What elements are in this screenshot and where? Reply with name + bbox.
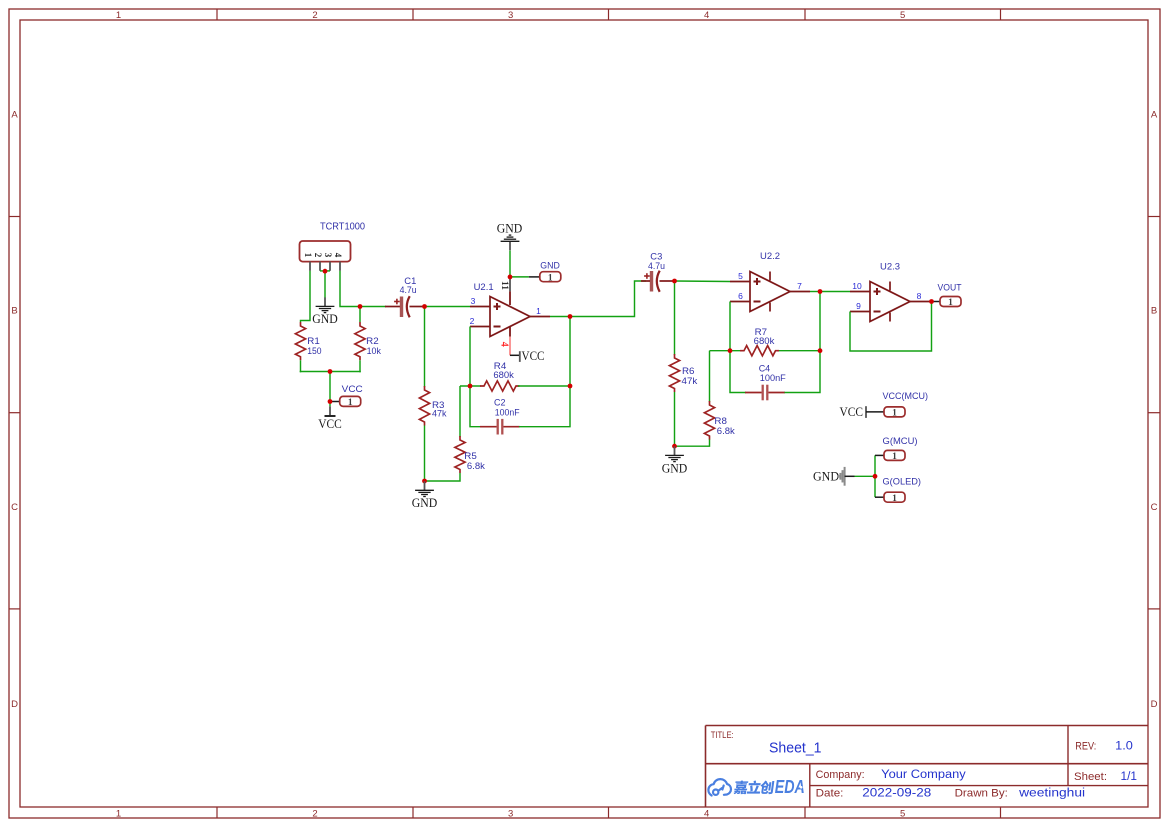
junction pin11 node (508, 275, 513, 280)
svg-text:2: 2 (312, 808, 317, 819)
svg-text:B: B (11, 306, 17, 317)
junction TCRT gnd (323, 269, 328, 274)
junction fb (468, 384, 473, 389)
svg-text:1: 1 (892, 494, 897, 504)
svg-text:C: C (11, 502, 18, 513)
junction R3 gnd (422, 479, 427, 484)
svg-text:VOUT: VOUT (938, 282, 962, 292)
svg-text:6.8k: 6.8k (717, 426, 736, 436)
U2.1 pin3 (470, 306, 490, 308)
C3 right pin (660, 280, 675, 282)
JLC EDA logo (708, 779, 731, 795)
svg-text:GND: GND (813, 470, 839, 484)
U2.2 power bars (769, 272, 771, 281)
wire R4 to out (518, 385, 570, 387)
wire R1-R2 rail (300, 371, 361, 373)
svg-text:A: A (1151, 110, 1158, 121)
svg-text:Date:: Date: (816, 788, 844, 800)
svg-text:GND: GND (312, 312, 338, 326)
power VCC symbol (329, 406, 331, 415)
wire pins2-3 join (320, 270, 330, 272)
wire U2.2 out down (819, 292, 821, 351)
svg-text:4.7u: 4.7u (400, 285, 417, 295)
ground TCRT (324, 297, 326, 306)
capacitor C3 (650, 271, 653, 292)
svg-text:U2.3: U2.3 (880, 261, 900, 271)
power VCC flag U2.1 (510, 354, 520, 356)
U2.3 pin8 (910, 301, 930, 303)
resistor R3 (419, 386, 429, 426)
svg-text:GND: GND (412, 496, 438, 510)
U2.3 power bars (889, 282, 891, 291)
U2.1 pin11 (509, 277, 511, 292)
resistor R2 wire top (359, 307, 361, 323)
svg-text:G(MCU): G(MCU) (883, 436, 918, 447)
U2.2 pin7 (790, 291, 810, 293)
svg-text:Sheet_1: Sheet_1 (769, 740, 822, 756)
svg-text:9: 9 (856, 301, 861, 311)
svg-text:1: 1 (116, 10, 121, 21)
TCRT1000 pins 1-4 (309, 262, 311, 271)
wire out down (569, 317, 571, 387)
svg-text:4: 4 (704, 808, 709, 819)
svg-text:C: C (1151, 502, 1158, 513)
svg-text:D: D (1151, 699, 1158, 710)
svg-text:2: 2 (470, 316, 475, 326)
svg-text:R5: R5 (464, 451, 477, 461)
svg-text:3: 3 (508, 10, 513, 21)
svg-text:5: 5 (900, 10, 905, 21)
wire R8 top (709, 351, 711, 402)
svg-text:4: 4 (704, 10, 709, 21)
svg-text:Drawn By:: Drawn By: (955, 788, 1008, 800)
svg-text:6.8k: 6.8k (467, 461, 486, 471)
svg-text:1: 1 (548, 273, 553, 283)
resistor R6 (669, 354, 679, 392)
svg-text:VCC(MCU): VCC(MCU) (883, 391, 929, 402)
resistor R5 (455, 436, 465, 473)
resistor R8 (704, 401, 714, 440)
wire U2.1 out (550, 316, 570, 318)
svg-text:1: 1 (303, 253, 313, 258)
wire gnd stem (845, 475, 855, 477)
svg-text:47k: 47k (432, 408, 447, 418)
svg-text:8: 8 (917, 291, 922, 301)
wire C2 right (519, 386, 570, 427)
U2.1 pin4 bar (509, 327, 511, 337)
C3 left pin (641, 280, 650, 282)
wire R5 gnd rail (425, 473, 461, 481)
svg-text:VCC: VCC (318, 417, 342, 431)
junction U2.1 out (568, 314, 573, 319)
junction C1 out (422, 304, 427, 309)
C2 left pin (480, 426, 497, 428)
port GND (540, 272, 561, 282)
capacitor C2 (497, 419, 499, 435)
port G(MCU) (884, 450, 905, 460)
wire TCRT gnd (324, 271, 326, 297)
junction R4 out (568, 384, 573, 389)
C4 left pin (745, 392, 762, 394)
wire VOUT stub (932, 301, 941, 303)
svg-text:B: B (1151, 306, 1157, 317)
svg-text:R1: R1 (307, 336, 320, 346)
svg-text:U2.1: U2.1 (474, 282, 494, 292)
svg-text:1: 1 (348, 398, 353, 408)
wire R8 gnd rail (675, 439, 710, 446)
U2.2 pin5 (730, 281, 750, 283)
junction R1R2 (328, 369, 333, 374)
svg-text:Company:: Company: (816, 769, 865, 781)
wire VCC port stub (332, 401, 340, 403)
svg-text:150: 150 (307, 346, 321, 356)
wire R5 top (459, 386, 461, 437)
svg-text:6: 6 (738, 291, 743, 301)
wire fb2 rail (710, 350, 742, 352)
port VCC (340, 396, 361, 406)
wire G(MCU) (874, 455, 876, 476)
op-amp U2.2 (750, 272, 790, 312)
svg-text:7: 7 (797, 281, 802, 291)
svg-text:A: A (11, 110, 18, 121)
wire R1 bottom (300, 360, 302, 372)
svg-text:R2: R2 (366, 336, 379, 346)
wire C3 to pin5 (675, 280, 731, 283)
svg-text:2022-09-28: 2022-09-28 (862, 788, 931, 800)
sensor TCRT1000 body (300, 241, 351, 262)
svg-text:10: 10 (852, 281, 862, 291)
svg-text:5: 5 (738, 271, 743, 281)
svg-text:47k: 47k (682, 376, 698, 386)
C4 right pin (769, 392, 786, 394)
junction R7 out (818, 348, 823, 353)
svg-text:VCC: VCC (522, 349, 545, 363)
svg-text:TCRT1000: TCRT1000 (320, 222, 365, 233)
capacitor C1 (400, 297, 403, 318)
svg-text:4: 4 (333, 253, 343, 258)
wire C1 to R3 (424, 307, 426, 388)
wire C2 left (470, 386, 481, 427)
wire R2 bottom (359, 360, 361, 372)
svg-text:1/1: 1/1 (1121, 771, 1138, 783)
svg-text:680k: 680k (754, 336, 775, 346)
svg-text:1: 1 (536, 306, 541, 316)
svg-text:1: 1 (948, 298, 953, 308)
wire fb rail (460, 385, 481, 387)
svg-text:GND: GND (540, 261, 560, 271)
wire G(OLED) (874, 476, 876, 497)
svg-text:100nF: 100nF (760, 373, 786, 383)
svg-text:4.7u: 4.7u (648, 261, 665, 271)
U2.1 pin4 line (509, 337, 511, 356)
U2.1 pin1 (530, 316, 550, 318)
svg-text:3: 3 (471, 296, 476, 306)
op-amp U2.3 (870, 282, 910, 322)
ground R3 (424, 481, 426, 490)
svg-text:1: 1 (892, 452, 897, 462)
svg-text:1: 1 (892, 409, 897, 419)
wire U2.3 feedback (850, 302, 932, 352)
junction U2.3 out (929, 299, 934, 304)
svg-text:3: 3 (508, 808, 513, 819)
port VOUT (940, 297, 961, 307)
U2.3 pin10 (850, 291, 870, 293)
junction C3 out (672, 279, 677, 284)
junction fb2 (728, 348, 733, 353)
wire R7 to out (779, 350, 820, 352)
svg-text:2: 2 (312, 10, 317, 21)
ground R6 (674, 446, 676, 455)
junction node A (358, 304, 363, 309)
svg-text:10k: 10k (367, 346, 382, 356)
title block grid (706, 725, 1149, 727)
resistor R1 (295, 322, 305, 360)
wire gnd to pin11 (509, 251, 511, 277)
svg-text:3: 3 (323, 253, 333, 258)
U2.1 pin2 (470, 326, 490, 328)
U2.3 pin9 (850, 311, 870, 313)
resistor R2 (355, 322, 365, 360)
svg-text:100nF: 100nF (495, 408, 520, 418)
junction VCC node (328, 399, 333, 404)
svg-text:U2.2: U2.2 (760, 251, 780, 261)
wire R6 to gnd (674, 392, 676, 446)
svg-text:680k: 680k (493, 370, 514, 380)
port VCC(MCU) (884, 407, 905, 417)
wire pin6 down (729, 302, 731, 351)
svg-text:R8: R8 (714, 416, 727, 426)
svg-text:5: 5 (900, 808, 905, 819)
svg-text:Sheet:: Sheet: (1074, 771, 1107, 783)
wire R3 to gnd (424, 426, 426, 482)
svg-text:GND: GND (497, 221, 523, 235)
resistor R4 (480, 381, 520, 391)
svg-text:1: 1 (116, 808, 121, 819)
wire pin7 out (810, 291, 820, 293)
svg-text:11: 11 (499, 281, 509, 290)
svg-text:4: 4 (499, 342, 510, 347)
wire C4 left (730, 351, 746, 393)
C2 right pin (504, 426, 520, 428)
wire U2.2 out to U2.3 (820, 291, 850, 293)
svg-text:C3: C3 (650, 251, 662, 261)
junction G ports (873, 474, 878, 479)
C1 left pin (385, 306, 400, 308)
wire to GND port (510, 276, 529, 278)
svg-text:VCC: VCC (840, 405, 864, 419)
wire pin2 down (469, 327, 471, 387)
svg-text:R6: R6 (682, 366, 695, 376)
svg-text:REV:: REV: (1075, 740, 1096, 752)
wire VCC MCU (866, 411, 884, 413)
C1 right pin (410, 306, 425, 308)
wire to VCC node (329, 372, 331, 407)
junction R6 gnd (672, 444, 677, 449)
wire C1 to pin3 (425, 306, 471, 308)
wire C4 right (785, 351, 821, 393)
svg-text:C2: C2 (494, 397, 506, 407)
wire nodeA right (360, 306, 386, 308)
resistor R7 (740, 346, 779, 356)
svg-text:2: 2 (313, 253, 323, 258)
U2.2 pin6 (730, 301, 750, 303)
svg-text:TITLE:: TITLE: (711, 730, 734, 740)
svg-text:1.0: 1.0 (1115, 740, 1133, 752)
wire pin4 (340, 271, 359, 307)
svg-text:G(OLED): G(OLED) (883, 477, 922, 488)
junction U2.2 out (818, 289, 823, 294)
wire C3 to R6 (674, 281, 676, 355)
svg-text:VCC: VCC (342, 384, 364, 394)
port G(OLED) (884, 492, 905, 502)
svg-text:D: D (11, 699, 18, 710)
wire pin1 to R1 (301, 271, 311, 322)
svg-text:GND: GND (662, 461, 688, 475)
svg-text:Your Company: Your Company (881, 769, 966, 781)
capacitor C4 (762, 385, 764, 401)
op-amp U2.1 (490, 297, 530, 337)
svg-text:weetinghui: weetinghui (1018, 788, 1085, 800)
svg-text:C4: C4 (759, 364, 771, 374)
wire out to C3 (570, 281, 646, 317)
